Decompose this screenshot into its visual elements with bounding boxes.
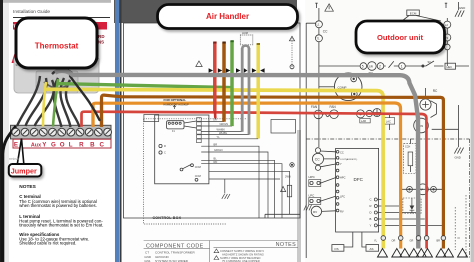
svg-text:HUMIDISTAT HOOKUP: HUMIDISTAT HOOKUP (164, 104, 190, 107)
svg-text:NOTES: NOTES (276, 242, 297, 248)
svg-text:HEC: HEC (447, 65, 453, 69)
svg-text:B: B (370, 217, 372, 221)
svg-text:COMPONENT CODE: COMPONENT CODE (146, 243, 204, 249)
svg-text:BR: BR (437, 240, 441, 243)
svg-text:RV: RV (313, 210, 317, 214)
svg-text:D: D (370, 211, 372, 215)
svg-text:DFC: DFC (354, 177, 364, 182)
svg-text:GND: GND (455, 156, 461, 160)
svg-text:GND: GND (459, 6, 465, 10)
svg-text:C: C (370, 198, 372, 202)
svg-text:G: G (51, 141, 56, 148)
svg-text:HUM: HUM (242, 31, 248, 35)
svg-text:O: O (60, 141, 65, 148)
svg-text:L: L (69, 141, 73, 148)
svg-text:Installation Guide: Installation Guide (13, 9, 50, 15)
svg-text:C: C (99, 141, 104, 148)
svg-text:Y1 OUT(AUX/E/Y1): Y1 OUT(AUX/E/Y1) (338, 158, 357, 161)
svg-text:FOR OPTIONAL: FOR OPTIONAL (164, 98, 187, 102)
svg-text:CONTROL BOX: CONTROL BOX (153, 216, 182, 220)
svg-text:AND HERTZ SHOWN ON RATING: AND HERTZ SHOWN ON RATING (222, 252, 264, 256)
svg-text:OR: OR (392, 240, 396, 243)
svg-text:B: B (90, 141, 95, 148)
svg-text:C: C (164, 151, 166, 155)
svg-text:2: 2 (379, 65, 381, 69)
svg-text:rminal: rminal (9, 157, 19, 161)
svg-text:COM: COM (195, 174, 201, 178)
svg-text:R: R (370, 204, 372, 208)
svg-text:Air Handler: Air Handler (206, 12, 249, 21)
svg-text:GR/GN: GR/GN (220, 122, 229, 126)
svg-text:HPC: HPC (309, 175, 316, 179)
svg-text:YL: YL (217, 135, 221, 139)
svg-text:HPC: HPC (340, 175, 346, 179)
svg-text:CC: CC (315, 157, 320, 161)
svg-text:AS: AS (370, 247, 374, 251)
svg-text:LAR: LAR (361, 119, 366, 123)
svg-text:COM: COM (195, 165, 201, 169)
svg-text:LPC: LPC (340, 195, 345, 199)
svg-text:RC: RC (433, 89, 438, 93)
svg-text:R: R (164, 144, 166, 148)
svg-text:R: R (79, 141, 84, 148)
svg-text:OS: OS (334, 247, 338, 251)
svg-text:Y: Y (370, 224, 372, 228)
svg-text:BR: BR (214, 142, 218, 146)
svg-text:GR: GR (410, 240, 414, 243)
svg-text:ECM: ECM (410, 11, 417, 15)
svg-text:CC: CC (340, 151, 344, 155)
svg-text:SC: SC (428, 60, 432, 64)
svg-text:Aux: Aux (31, 142, 41, 148)
svg-text:LAC: LAC (386, 119, 391, 123)
svg-text:WH/BL: WH/BL (219, 131, 228, 135)
svg-text:5: 5 (362, 65, 364, 69)
svg-text:NS: NS (98, 40, 104, 45)
svg-text:tinuously when thermostat is s: tinuously when thermostat is set to Em H… (19, 223, 103, 228)
svg-text:when thermostat is powered by: when thermostat is powered by batteries. (19, 203, 96, 208)
svg-text:BL: BL (214, 156, 218, 160)
svg-text:Y: Y (340, 162, 342, 166)
svg-text:Thermostat: Thermostat (35, 42, 79, 51)
svg-text:E: E (14, 141, 18, 148)
svg-text:1: 1 (401, 65, 403, 69)
svg-text:LPC: LPC (309, 194, 316, 198)
svg-text:CCH: CCH (405, 146, 410, 149)
svg-text:CT: CT (145, 250, 149, 254)
svg-text:FAN: FAN (311, 105, 318, 109)
svg-text:Shielded cable is not required: Shielded cable is not required. (19, 240, 76, 245)
svg-text:Jumper: Jumper (11, 166, 37, 175)
svg-text:RD: RD (214, 160, 218, 164)
svg-text:GR/GN: GR/GN (214, 148, 223, 152)
svg-text:FAN: FAN (330, 105, 337, 109)
svg-text:Outdoor unit: Outdoor unit (377, 33, 423, 42)
svg-text:RV: RV (340, 210, 344, 214)
svg-text:CC: CC (323, 30, 328, 34)
svg-text:CONTROL TRANSFORMER: CONTROL TRANSFORMER (155, 250, 195, 254)
svg-text:NOTES: NOTES (19, 184, 36, 190)
svg-text:2WB: 2WB (285, 175, 291, 179)
